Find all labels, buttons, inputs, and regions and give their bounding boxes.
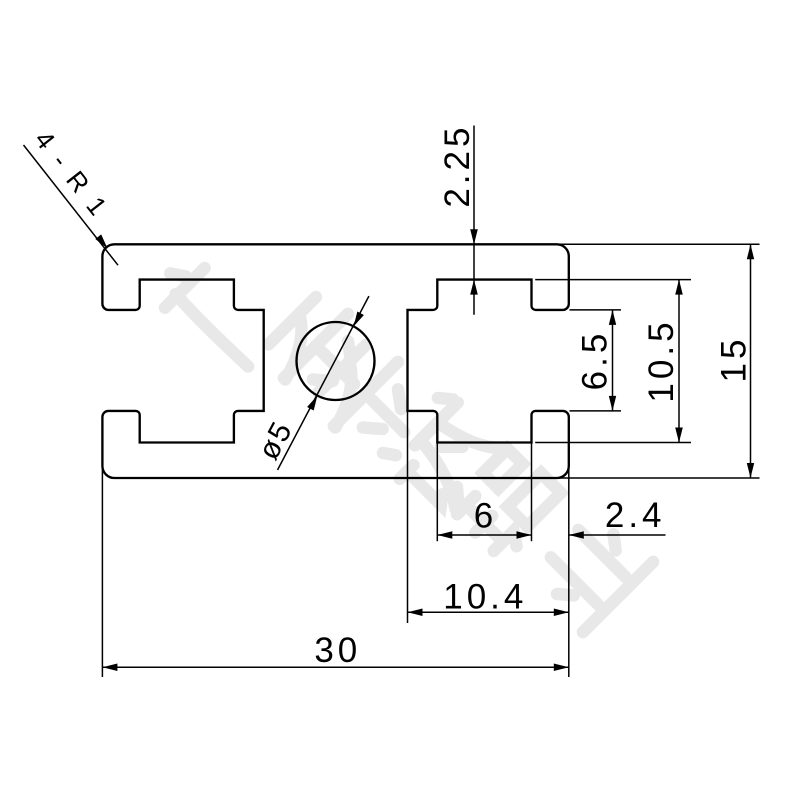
svg-text:15: 15	[714, 336, 753, 383]
svg-text:ø5: ø5	[252, 415, 299, 465]
svg-text:4-R1: 4-R1	[29, 125, 122, 232]
svg-text:30: 30	[314, 631, 361, 670]
svg-text:2.25: 2.25	[438, 124, 477, 208]
svg-text:6.5: 6.5	[575, 330, 614, 391]
svg-text:10.5: 10.5	[642, 318, 681, 402]
svg-text:6: 6	[474, 497, 497, 536]
svg-text:2.4: 2.4	[605, 496, 666, 535]
svg-text:10.4: 10.4	[443, 578, 527, 617]
